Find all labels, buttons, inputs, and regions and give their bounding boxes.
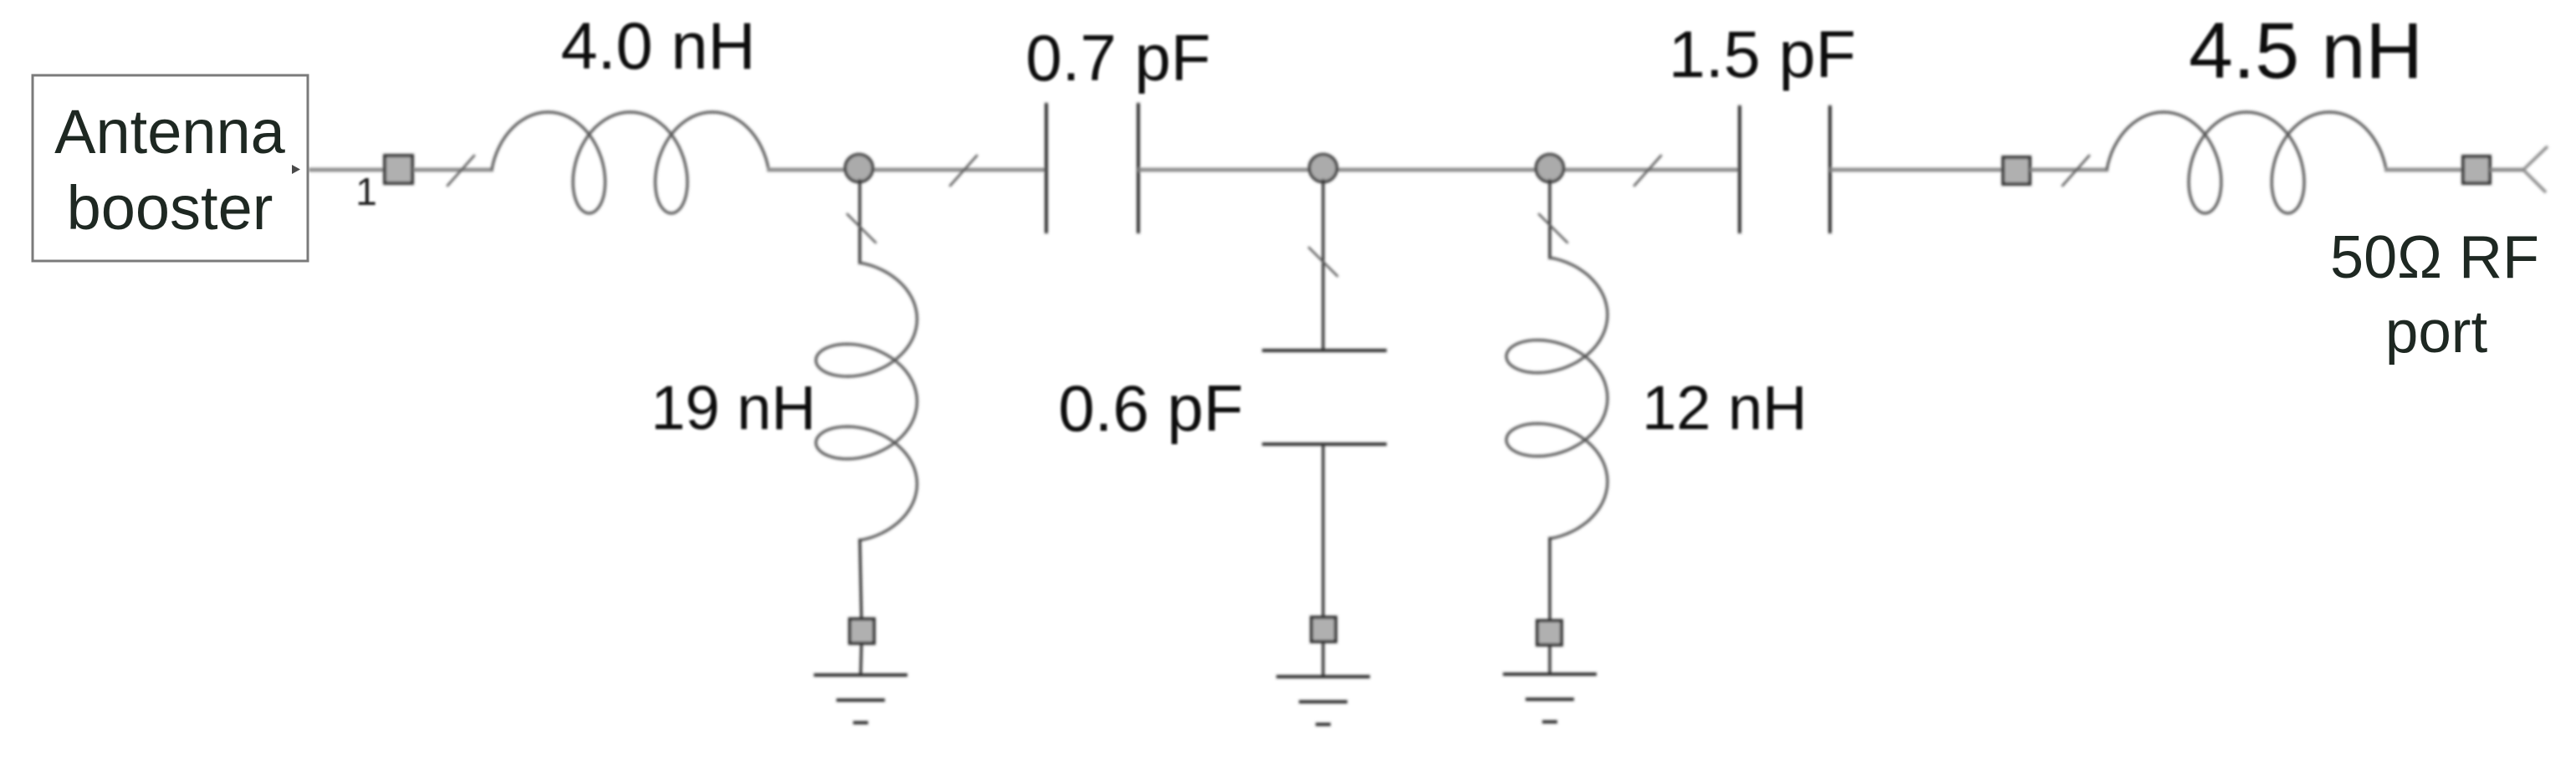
ground symbol G1 [814,673,907,677]
svg-text:booster: booster [67,173,273,243]
ground terminal T2 (square pad) [1311,617,1336,642]
inductor L2 19 nH (shunt) [816,263,917,540]
svg-text:19 nH: 19 nH [651,373,815,442]
svg-text:0.6 pF: 0.6 pF [1058,371,1243,445]
wire from node A down to inductor L2 [858,179,861,264]
svg-text:1: 1 [355,170,377,213]
pin slash mark on wire before C2 [1634,156,1661,186]
wire from node C down to inductor L3 [1548,179,1551,259]
wire from terminal T1 to ground [861,644,861,676]
wire from L1 to capacitor C1 through node A [767,168,1045,172]
wire from L4 to port terminal P3 [2384,168,2464,172]
junction node C [1536,155,1564,182]
capacitor C2 1.5 pF (series) left plate [1738,105,1741,233]
wire from port P3 to RF port fork [2490,168,2523,172]
pin slash mark on wire before C1 [950,156,977,186]
pin slash mark on wire before L4 [2062,156,2089,186]
port terminal P2 (square pad) [2003,157,2030,184]
capacitor C1 0.7 pF (series) left plate [1045,103,1048,233]
ground symbol G2 [1276,675,1370,678]
ground terminal T1 (square pad) [850,619,874,643]
port terminal P1 (square pad) [385,156,412,183]
wire from C3 to ground terminal T2 [1321,444,1324,618]
capacitor C3 0.6 pF (shunt) top plate [1262,349,1387,352]
inductor L4 4.5 nH (series) [2107,112,2386,213]
wire from C2 to port terminal P2 [1830,168,2004,172]
capacitor C2 right plate [1828,105,1832,233]
RF port fork symbol lower arm [2523,170,2546,192]
svg-text:12 nH: 12 nH [1642,373,1807,442]
svg-text:4.5 nH: 4.5 nH [2189,7,2423,95]
pin slash mark on shunt wire of C3 [1309,248,1337,276]
wire from L2 to ground terminal T1 [860,539,861,619]
wire from port P2 to inductor L4 [2030,168,2108,172]
wire from L3 to ground terminal T3 [1548,537,1551,621]
capacitor C3 bottom plate [1262,442,1387,446]
pin slash mark on wire before L1 [447,156,474,186]
wire from terminal T3 to ground [1548,646,1551,675]
wire from port P1 to inductor L1 [413,168,493,172]
svg-text:4.0 nH: 4.0 nH [561,8,756,83]
pin mark of antenna booster output [292,165,300,174]
RF port fork symbol upper arm [2523,146,2548,170]
capacitor C1 right plate [1137,103,1140,233]
wire from terminal T2 to ground [1321,642,1324,678]
inductor L3 12 nH (shunt) [1506,258,1607,539]
antenna booster block (box) [33,75,308,261]
svg-text:0.7 pF: 0.7 pF [1025,21,1210,95]
svg-text:50Ω RF: 50Ω RF [2330,224,2539,291]
pin slash mark on shunt wire of L3 [1539,214,1567,243]
pin slash mark on shunt wire of L2 [847,214,876,243]
junction node B [1310,155,1337,182]
inductor L1 4.0 nH (series) [492,112,769,213]
svg-text:1.5 pF: 1.5 pF [1669,17,1856,91]
port terminal P3 (square pad) [2463,156,2490,183]
svg-text:port: port [2385,299,2488,366]
wire from C1 to capacitor C2 through nodes B and C [1138,168,1738,172]
svg-text:Antenna: Antenna [54,97,286,166]
wire from antenna booster box to port 1 [309,168,386,172]
ground terminal T3 (square pad) [1537,621,1561,645]
ground symbol G3 [1503,673,1597,676]
wire from node B down to capacitor C3 [1321,179,1324,350]
junction node A [846,155,873,182]
